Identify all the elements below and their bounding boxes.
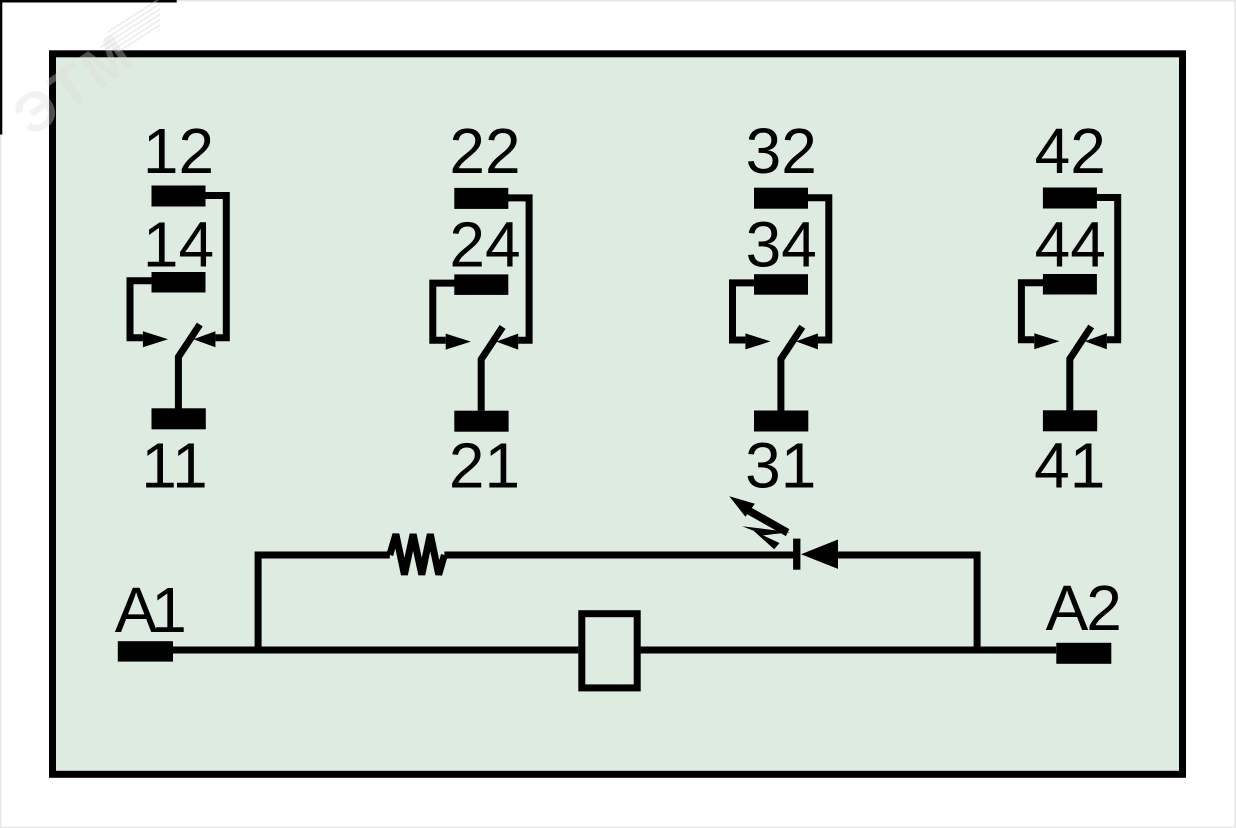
svg-text:2: 2 xyxy=(1086,572,1122,644)
svg-text:14: 14 xyxy=(143,208,214,280)
svg-text:11: 11 xyxy=(141,429,207,501)
svg-text:42: 42 xyxy=(1035,115,1106,187)
svg-text:41: 41 xyxy=(1034,429,1105,501)
svg-text:22: 22 xyxy=(449,115,520,187)
svg-text:31: 31 xyxy=(745,429,816,501)
svg-text:1: 1 xyxy=(151,574,187,646)
svg-text:12: 12 xyxy=(143,115,214,187)
svg-text:34: 34 xyxy=(746,208,817,280)
svg-text:21: 21 xyxy=(449,429,520,501)
svg-text:24: 24 xyxy=(449,208,520,280)
svg-text:32: 32 xyxy=(746,115,817,187)
svg-text:44: 44 xyxy=(1035,208,1106,280)
svg-text:A: A xyxy=(1046,572,1089,644)
